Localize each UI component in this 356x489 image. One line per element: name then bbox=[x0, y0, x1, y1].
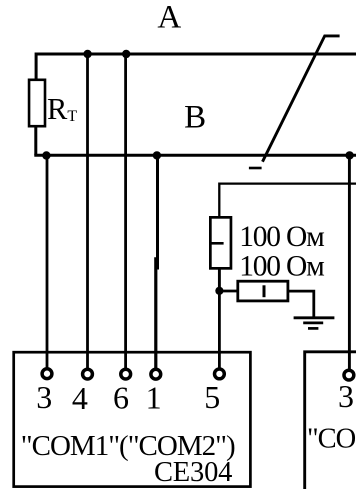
junction dot R1 / R2 / terminal 5 bbox=[215, 287, 223, 295]
resistor R1 power mark bbox=[211, 242, 224, 245]
wire R1 bottom to junction bbox=[218, 269, 221, 291]
svg-text:6: 6 bbox=[113, 379, 129, 415]
wire R2 to ground bbox=[289, 291, 314, 316]
ground bar 1 bbox=[294, 316, 335, 319]
wire RT bottom to B bus bbox=[34, 127, 37, 156]
resistor RT bbox=[29, 80, 45, 126]
switch blade diagonal bbox=[263, 36, 340, 162]
svg-text:5: 5 bbox=[204, 379, 220, 415]
second meter box bbox=[305, 352, 356, 489]
terminal circle 5 bbox=[215, 369, 225, 379]
wire voltage tap row bbox=[219, 184, 356, 217]
wire phase B bus bbox=[34, 154, 356, 157]
wire terminal 5 bbox=[218, 291, 221, 368]
svg-text:CE304: CE304 bbox=[154, 457, 232, 488]
wire right column to box2 terminal bbox=[348, 155, 351, 369]
wire junction to R2 bbox=[219, 290, 238, 293]
junction dot B bus / terminal 1 bbox=[153, 151, 161, 159]
junction dot A bus / terminal 6 bbox=[122, 50, 130, 58]
svg-text:3: 3 bbox=[36, 379, 52, 415]
junction dot A bus / terminal 4 bbox=[83, 50, 91, 58]
wire terminal 1 upper segment bbox=[156, 155, 159, 269]
svg-text:B: B bbox=[184, 100, 206, 136]
wire terminal 1 lower segment bbox=[154, 257, 157, 369]
terminal circle box2 3 bbox=[344, 370, 354, 380]
ground bar 3 bbox=[308, 327, 318, 330]
wire terminal 3 bbox=[46, 155, 49, 368]
wire terminal 6 bbox=[124, 54, 127, 369]
terminal circle 3 bbox=[42, 369, 52, 379]
resistor R2 power mark bbox=[263, 285, 266, 297]
svg-text:"COM1": "COM1" bbox=[307, 424, 356, 455]
terminal circle 1 bbox=[151, 369, 161, 379]
ground bar 2 bbox=[303, 322, 323, 325]
svg-text:100 Ом: 100 Ом bbox=[239, 250, 324, 282]
svg-text:1: 1 bbox=[146, 379, 162, 415]
junction dot B bus / terminal 3 bbox=[42, 151, 50, 159]
resistor R1 100 Om bbox=[210, 217, 231, 268]
junction dot B bus / right column bbox=[345, 151, 353, 159]
wire terminal 4 bbox=[86, 54, 89, 369]
resistor R2 100 Om bbox=[238, 281, 288, 301]
terminal circle 6 bbox=[121, 369, 131, 379]
minus polarity mark bbox=[249, 167, 262, 170]
svg-text:100 Ом: 100 Ом bbox=[239, 221, 324, 253]
svg-text:4: 4 bbox=[72, 380, 88, 416]
wire phase A top bus bbox=[36, 54, 356, 79]
terminal circle 4 bbox=[83, 369, 93, 379]
meter CE304 box bbox=[14, 352, 251, 486]
svg-text:3: 3 bbox=[338, 378, 354, 414]
svg-text:A: A bbox=[157, 0, 181, 35]
